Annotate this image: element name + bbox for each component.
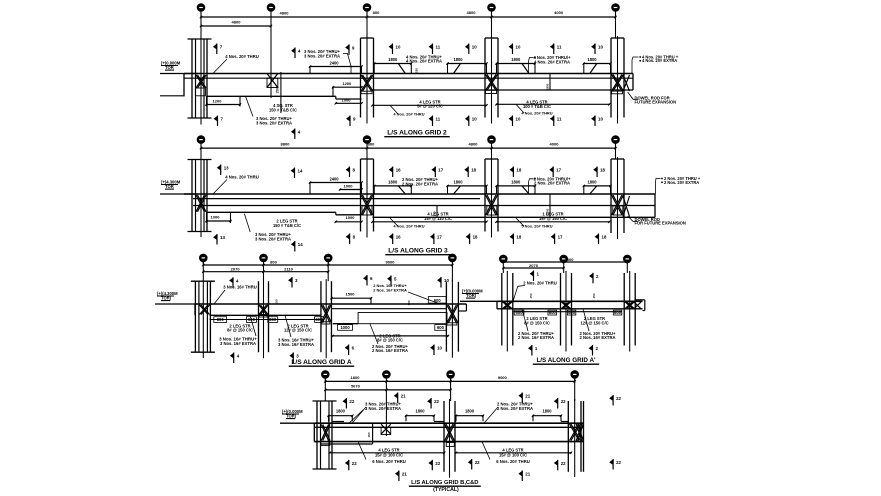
column at grid 1 sec4 — [501, 273, 503, 346]
svg-text:1800: 1800 — [351, 375, 361, 380]
svg-text:8800: 8800 — [281, 142, 291, 147]
beam left end sec4 — [496, 301, 498, 309]
column at grid 3 sec3 — [320, 281, 322, 352]
svg-text:21: 21 — [402, 472, 407, 477]
svg-text:10: 10 — [472, 45, 477, 50]
beam soffit bay1 sec2 — [207, 211, 336, 213]
bar dim right of E sec1 — [497, 63, 536, 65]
svg-text:10: 10 — [516, 117, 521, 122]
svg-text:1800: 1800 — [542, 409, 552, 414]
svg-text:4 Nos. 20# THRU: 4 Nos. 20# THRU — [393, 224, 424, 229]
section flag 14 top sec2 — [294, 168, 296, 179]
dim line 2 sec5 — [325, 389, 450, 391]
svg-text:3 Nos. 20# EXTRA: 3 Nos. 20# EXTRA — [256, 121, 292, 126]
stub end sec3 — [465, 304, 467, 311]
section flag 3 bottom sec3 — [292, 353, 294, 364]
bar dim right of D sec2 — [374, 185, 411, 187]
svg-text:16: 16 — [396, 168, 401, 173]
svg-text:4 Nos. 20# THRU: 4 Nos. 20# THRU — [393, 112, 424, 117]
grid bubble 2 sec3 — [260, 254, 267, 261]
svg-text:600: 600 — [568, 310, 576, 315]
dowel hatch sec2 — [623, 196, 630, 217]
svg-text:150 # T&B C/C: 150 # T&B C/C — [273, 223, 301, 228]
bar dim left of F sec2 — [584, 185, 611, 187]
extension line at notch sec1 — [280, 72, 282, 113]
bar dim left of F sec1 — [584, 63, 611, 65]
svg-text:4 Nos. 20# EXTRA: 4 Nos. 20# EXTRA — [406, 58, 442, 63]
grid bubble F sec2 — [612, 136, 619, 143]
svg-text:9000: 9000 — [386, 260, 396, 265]
column at grid F sec2 — [610, 159, 612, 233]
dim line 2 sec4 — [503, 267, 563, 269]
svg-text:5070: 5070 — [351, 384, 361, 389]
soffit bay3 left sec3 — [333, 323, 358, 325]
beam soffit bays2-3 sec2 — [373, 216, 656, 218]
section flag 22 top sec5 — [557, 398, 559, 409]
section flag 4 top sec3 — [232, 277, 234, 288]
svg-text:22: 22 — [475, 460, 480, 465]
boxed dim 600d sec4 — [613, 310, 622, 315]
dim line top sec2 — [201, 147, 616, 149]
dowel hatch sec1 — [623, 75, 630, 91]
soffit deep bay1 sec5 — [321, 443, 373, 445]
section flag 17 top sec2 — [434, 167, 436, 178]
section flag 13 bottom sec2 — [216, 234, 218, 245]
beam soffit bay1 sec1 — [207, 95, 336, 97]
dim 1000 below bay1 sec2 — [207, 220, 231, 222]
section flag 21 top sec5 — [397, 393, 399, 404]
svg-text:6 Nos. 20# THRU: 6 Nos. 20# THRU — [372, 459, 406, 464]
svg-text:150: 150 — [592, 293, 596, 298]
section flag 10 top sec1 — [594, 44, 596, 55]
dim through boxes sec3 — [210, 319, 321, 321]
section flag 18 bottom sec2 — [469, 234, 471, 245]
beam soffit bays2-3 sec1 — [373, 89, 634, 91]
dim through boxes sec4 — [513, 311, 622, 313]
svg-text:1000: 1000 — [342, 97, 352, 102]
svg-text:1800: 1800 — [587, 57, 597, 62]
svg-text:18: 18 — [602, 235, 607, 240]
svg-text:2070: 2070 — [529, 263, 539, 268]
stub b sec5 — [434, 421, 444, 423]
dim 1200 inside beam sec1 — [333, 86, 362, 88]
svg-text:600: 600 — [315, 317, 323, 322]
bar dim right of E sec2 — [497, 185, 536, 187]
svg-text:3 Nos. 20# EXTRA: 3 Nos. 20# EXTRA — [304, 54, 340, 59]
section flag 10 top sec1 — [468, 44, 470, 55]
soffit step sec1 — [335, 96, 337, 99]
dim below bay3 sec3 — [333, 335, 448, 337]
section flag 16 top sec2 — [392, 167, 394, 178]
svg-text:600: 600 — [549, 310, 557, 315]
column at grid D sec5 — [443, 401, 445, 472]
vert dim b sec1 — [549, 74, 551, 91]
svg-text:1800: 1800 — [336, 409, 346, 414]
svg-text:22: 22 — [352, 461, 357, 466]
svg-text:1800: 1800 — [511, 57, 521, 62]
stub end sec4 — [644, 300, 646, 311]
svg-text:4 Nos. 20# EXTRA: 4 Nos. 20# EXTRA — [642, 58, 677, 63]
svg-text:17: 17 — [558, 235, 563, 240]
stub a sec5 — [332, 421, 344, 423]
vert dim b sec2 — [549, 194, 551, 217]
svg-text:FOR FUTURE EXPANSION: FOR FUTURE EXPANSION — [635, 221, 686, 226]
svg-text:18: 18 — [600, 168, 605, 173]
svg-text:150: 150 — [529, 293, 533, 298]
section flag 10 top sec3 — [440, 277, 442, 288]
grid bubble C sec1 — [267, 4, 274, 11]
boxed dim 800 sec3 — [214, 317, 227, 323]
note dowel rod sec1 — [628, 92, 638, 99]
svg-text:17: 17 — [437, 235, 442, 240]
dim below bay2 sec1 — [373, 104, 487, 106]
step vertical sec5 — [372, 423, 374, 444]
svg-text:L/S ALONG GRID A: L/S ALONG GRID A — [291, 359, 352, 366]
beam right end sec2 — [654, 194, 656, 217]
section flag 11 top sec1 — [432, 44, 434, 55]
boxed dim 600a sec3 — [247, 317, 257, 323]
svg-text:4000: 4000 — [550, 142, 560, 147]
grid bubble B sec2 — [197, 136, 204, 143]
svg-text:2 Nos. 20# EXTRA: 2 Nos. 20# EXTRA — [534, 181, 570, 186]
column at grid B sec1 — [191, 39, 193, 118]
svg-text:150: 150 — [415, 68, 419, 73]
svg-text:10: 10 — [396, 45, 401, 50]
svg-text:18: 18 — [473, 235, 478, 240]
grid bubble 4 sec3 — [449, 254, 456, 261]
svg-text:150 # T&B C/C: 150 # T&B C/C — [269, 107, 297, 112]
beam mid line sec2 — [193, 205, 655, 207]
grid bubble 3 sec4 — [624, 255, 631, 262]
svg-text:16: 16 — [396, 235, 401, 240]
grid bubble D sec1 — [363, 4, 370, 11]
slab top sec4 — [497, 300, 643, 302]
section flag 21b bottom-center sec5 — [521, 471, 523, 482]
section flag 22 bottom sec5 — [348, 460, 350, 471]
svg-text:22: 22 — [561, 461, 566, 466]
section flag 2 bottom sec4 — [592, 345, 594, 356]
grid bubble 3 sec3 — [325, 254, 332, 261]
svg-text:1800: 1800 — [587, 179, 597, 184]
note dowel rod sec2 — [628, 216, 638, 222]
dim below bay2 sec2 — [373, 221, 487, 223]
svg-text:2400: 2400 — [329, 176, 339, 181]
svg-text:2 Nos. 20# EXTRA: 2 Nos. 20# EXTRA — [497, 406, 533, 411]
dim line 2 sec1 — [201, 25, 271, 27]
svg-text:17: 17 — [438, 168, 443, 173]
soffit step sec2 — [335, 212, 337, 215]
column at grid 4 sec3 — [445, 282, 447, 352]
grid line C sec5 — [385, 383, 387, 436]
bar dim left of E sec2 — [448, 185, 487, 187]
svg-text:12# @ 150 C/C: 12# @ 150 C/C — [284, 328, 312, 333]
svg-text:1000: 1000 — [211, 215, 221, 220]
svg-text:600: 600 — [614, 310, 622, 315]
dowel hatch sec4 — [634, 302, 641, 309]
section flag 6 top sec3 — [366, 275, 368, 286]
stub bottom sec4 — [643, 310, 645, 312]
slab line2 sec2 — [193, 198, 480, 200]
bar dim b sec5 — [406, 415, 434, 417]
dim 1200 below bay1 sec1 — [207, 104, 241, 106]
svg-text:15# @ 150 C/C: 15# @ 150 C/C — [539, 216, 567, 221]
section flag 1 bottom sec4 — [531, 345, 533, 356]
svg-text:800: 800 — [373, 10, 380, 15]
boxed dim 600b sec3 — [315, 317, 324, 323]
column at grid E sec5 — [567, 401, 569, 472]
svg-text:14: 14 — [298, 169, 303, 174]
boxed dim 600 above col4 sec3 — [428, 297, 446, 304]
boxed dim 600 bay3 sec3 — [435, 325, 446, 331]
svg-text:4000: 4000 — [554, 10, 564, 15]
section flag 11 top sec1 — [553, 44, 555, 55]
column at grid 2 sec4 — [560, 273, 562, 346]
section flag 17 bottom sec2 — [433, 234, 435, 245]
svg-text:1000: 1000 — [344, 184, 354, 189]
svg-text:1800: 1800 — [465, 409, 475, 414]
svg-text:14: 14 — [298, 242, 303, 247]
svg-text:5 Nos. 20# THRU: 5 Nos. 20# THRU — [521, 224, 552, 229]
column at grid 1 sec3 — [194, 281, 196, 352]
svg-text:15# @ 110 C/C: 15# @ 110 C/C — [424, 216, 452, 221]
svg-text:8# @ 150 C/C: 8# @ 150 C/C — [377, 338, 403, 343]
beam notch at grid C sec1 — [267, 78, 278, 87]
column at grid D sec2 — [360, 159, 362, 232]
boxed dim 1000 bay3 sec3 — [338, 325, 353, 331]
section flag 7 bottom sec1 — [217, 116, 219, 127]
dim line top sec5 — [325, 380, 574, 382]
grid bubble B sec5 — [322, 371, 329, 378]
section flag 4 center bottom sec1 — [294, 129, 296, 140]
svg-text:17: 17 — [556, 168, 561, 173]
svg-text:21: 21 — [525, 472, 530, 477]
svg-text:11: 11 — [557, 45, 562, 50]
svg-text:2110: 2110 — [284, 266, 293, 271]
dim 2400 sec2 — [310, 182, 362, 184]
section flag 7 top sec1 — [216, 44, 218, 55]
pedestal col D sec5 — [446, 443, 454, 447]
svg-text:1800: 1800 — [388, 57, 398, 62]
slab bottom sec5 — [314, 426, 583, 428]
svg-text:100 # T&B C/C: 100 # T&B C/C — [523, 104, 551, 109]
stub d sec5 — [561, 421, 568, 423]
svg-text:800: 800 — [270, 260, 277, 265]
svg-text:3 Nos. 20# EXTRA: 3 Nos. 20# EXTRA — [365, 406, 401, 411]
svg-text:150: 150 — [407, 300, 411, 305]
grid line C sec1 — [270, 18, 272, 99]
svg-text:3 Nos. 16# THRU: 3 Nos. 16# THRU — [223, 285, 257, 290]
section flag 21 bottom-center sec5 — [398, 471, 400, 482]
svg-text:18: 18 — [471, 168, 476, 173]
section flag 8 bottom sec2 — [349, 234, 351, 245]
bar dim right of D sec1 — [374, 63, 411, 65]
beam right end sec1 — [632, 74, 634, 91]
svg-text:11: 11 — [436, 117, 441, 122]
dim below bay2 sec5 — [456, 452, 571, 454]
svg-text:3 Nos. 20# EXTRA: 3 Nos. 20# EXTRA — [255, 236, 291, 241]
section flag 22 bottom sec5 — [612, 459, 614, 470]
grid bubble D sec2 — [363, 136, 370, 143]
svg-text:10: 10 — [516, 45, 521, 50]
grid bubble B sec1 — [197, 4, 204, 11]
section flag 16 bottom sec2 — [392, 234, 394, 245]
svg-text:18: 18 — [516, 235, 521, 240]
stub c sec5 — [455, 421, 456, 423]
svg-text:22: 22 — [435, 461, 440, 466]
bar dim d sec5 — [533, 415, 561, 417]
grid bubble 1 sec4 — [500, 255, 507, 262]
column at grid B sec2 — [191, 160, 193, 232]
column at grid 2 sec3 — [258, 281, 260, 352]
svg-text:11: 11 — [557, 117, 562, 122]
beam soffit sec4 — [497, 308, 643, 310]
bar dim c sec5 — [456, 415, 483, 417]
svg-text:12# @ 150 C/C: 12# @ 150 C/C — [580, 320, 608, 325]
svg-text:2400: 2400 — [329, 60, 339, 65]
column at grid E sec2 — [484, 159, 486, 232]
svg-text:150: 150 — [367, 432, 371, 437]
svg-text:1800: 1800 — [511, 179, 521, 184]
stub top right sec4 — [635, 299, 645, 301]
dim below bay1 sec5 — [330, 452, 445, 454]
beam soffit sec5 — [314, 441, 583, 443]
svg-text:150: 150 — [275, 299, 279, 304]
section flag 13 top sec2 — [220, 165, 222, 176]
svg-text:15# @ 100 C/C: 15# @ 100 C/C — [375, 452, 403, 457]
svg-text:4800: 4800 — [467, 10, 477, 15]
beam left end sec5 — [313, 423, 315, 441]
svg-text:1000: 1000 — [340, 325, 350, 330]
svg-text:1800: 1800 — [415, 409, 425, 414]
dim 2400 bay1 sec1 — [310, 66, 362, 68]
section flag 14 center bottom sec2 — [294, 241, 296, 252]
section flag 18 top sec2 — [467, 167, 469, 178]
grid bubble E sec2 — [488, 136, 495, 143]
section flag 10 bottom sec1 — [594, 116, 596, 127]
svg-text:1200: 1200 — [342, 81, 352, 86]
svg-text:22: 22 — [561, 399, 566, 404]
drop beam box bay3 sec3 — [358, 313, 447, 324]
vert dim a sec2 — [436, 206, 438, 217]
svg-text:15# @ 100 C/C: 15# @ 100 C/C — [499, 452, 527, 457]
svg-text:9000: 9000 — [498, 375, 508, 380]
beam left end sec1 — [183, 74, 185, 97]
dim below bay3 sec1 — [497, 103, 610, 105]
svg-text:4 Nos. 20# THRU: 4 Nos. 20# THRU — [225, 54, 259, 59]
column at grid E sec1 — [484, 38, 486, 118]
section flag 4 top sec1 — [294, 48, 296, 59]
svg-text:1800: 1800 — [453, 57, 463, 62]
svg-text:10: 10 — [437, 346, 442, 351]
svg-text:L/S ALONG GRID A': L/S ALONG GRID A' — [536, 357, 596, 364]
dim line top sec4 — [503, 261, 627, 263]
section flag 10 bottom sec3 — [433, 345, 435, 356]
svg-text:1500: 1500 — [346, 292, 356, 297]
svg-text:3800: 3800 — [565, 257, 575, 262]
slab top sec2 — [184, 193, 655, 195]
svg-text:800: 800 — [368, 142, 375, 147]
dim below bay3 sec2 — [497, 221, 610, 223]
section flag 8 top sec2 — [349, 167, 351, 178]
svg-text:10: 10 — [598, 45, 603, 50]
svg-text:21: 21 — [525, 394, 530, 399]
section flag 4 bottom sec3 — [233, 353, 235, 364]
section flag 5 top sec3 — [390, 276, 392, 287]
section flag 2 top sec4 — [592, 273, 594, 284]
svg-text:3 Nos. 16# EXTRA: 3 Nos. 16# EXTRA — [220, 341, 256, 346]
svg-text:4 Nos. 20# THRU: 4 Nos. 20# THRU — [521, 111, 552, 116]
dim 1000b below bay1 sec2 — [336, 221, 362, 223]
svg-text:FUTURE EXPANSION: FUTURE EXPANSION — [635, 100, 677, 105]
svg-text:L/S ALONG GRID 2: L/S ALONG GRID 2 — [387, 130, 447, 137]
slab line2 bay3 sec3 — [332, 308, 447, 310]
section flag 10 bottom sec1 — [468, 116, 470, 127]
dim 1000 below bay1 sec1 — [336, 102, 362, 104]
section flag 3 top sec3 — [291, 277, 293, 288]
svg-text:1800: 1800 — [546, 83, 550, 90]
svg-text:(TYPICAL): (TYPICAL) — [433, 487, 459, 493]
dim line top sec3 — [203, 264, 452, 266]
boxed dim 600a sec4 — [514, 310, 524, 315]
svg-text:11: 11 — [436, 45, 441, 50]
svg-text:3 Nos. 16# EXTRA: 3 Nos. 16# EXTRA — [278, 342, 314, 347]
grid bubble 2 sec4 — [560, 255, 567, 262]
svg-text:2 Nos. 20# EXTRA: 2 Nos. 20# EXTRA — [664, 180, 699, 185]
boxed dim 600c sec4 — [567, 310, 575, 315]
svg-text:8# @ 150 C/C: 8# @ 150 C/C — [524, 320, 550, 325]
svg-text:L/S ALONG GRID B,C&D: L/S ALONG GRID B,C&D — [411, 480, 478, 486]
section flag 10 top sec1 — [392, 44, 394, 55]
slab top sec5 — [314, 422, 583, 424]
dim 1000 sec2 — [340, 189, 362, 191]
column at grid B sec5 — [316, 401, 318, 469]
svg-text:13: 13 — [224, 166, 229, 171]
bar dim left of E sec1 — [448, 63, 487, 65]
svg-text:2 Nos. 16# EXTRA: 2 Nos. 16# EXTRA — [373, 288, 407, 293]
section flag 22 top sec5 — [430, 398, 432, 409]
note right end bars sec2 — [656, 179, 661, 195]
slab top sec3 — [195, 303, 466, 305]
svg-text:13: 13 — [220, 235, 225, 240]
beam soffit bay1b sec2 — [336, 214, 362, 216]
svg-text:22: 22 — [434, 399, 439, 404]
section flag 18 bottom sec2 — [512, 234, 514, 245]
svg-text:4800: 4800 — [232, 20, 242, 25]
section flag 21 top sec5 — [521, 393, 523, 404]
svg-text:21: 21 — [401, 394, 406, 399]
grid bubble E sec5 — [571, 371, 578, 378]
svg-text:2070: 2070 — [231, 266, 241, 271]
note right end bars sec1 — [632, 57, 639, 74]
section flag 11 bottom sec1 — [432, 116, 434, 127]
bar dim a sec5 — [329, 415, 353, 417]
svg-text:5# @ 120 C/C: 5# @ 120 C/C — [417, 104, 443, 109]
svg-text:L/S ALONG GRID 3: L/S ALONG GRID 3 — [388, 248, 448, 255]
svg-text:800: 800 — [217, 317, 225, 322]
svg-text:8# @ 150 C/C: 8# @ 150 C/C — [227, 328, 253, 333]
soffit level stub sec1 — [160, 95, 185, 97]
section flag 17 bottom sec2 — [554, 234, 556, 245]
boxed dim 800b sec3 — [268, 317, 278, 323]
svg-text:2 Nos. 20# EXTRA: 2 Nos. 20# EXTRA — [402, 181, 438, 186]
svg-text:2 Nos. 16# EXTRA: 2 Nos. 16# EXTRA — [372, 348, 408, 353]
svg-text:10: 10 — [472, 117, 477, 122]
section flag 6 bottom sec3 — [348, 345, 350, 356]
boxed dim 600b sec4 — [548, 310, 557, 315]
section flag 9 bottom sec1 — [349, 116, 351, 127]
dim 1500 above bay3 sec3 — [332, 297, 372, 299]
beam left end sec3 — [194, 304, 196, 315]
